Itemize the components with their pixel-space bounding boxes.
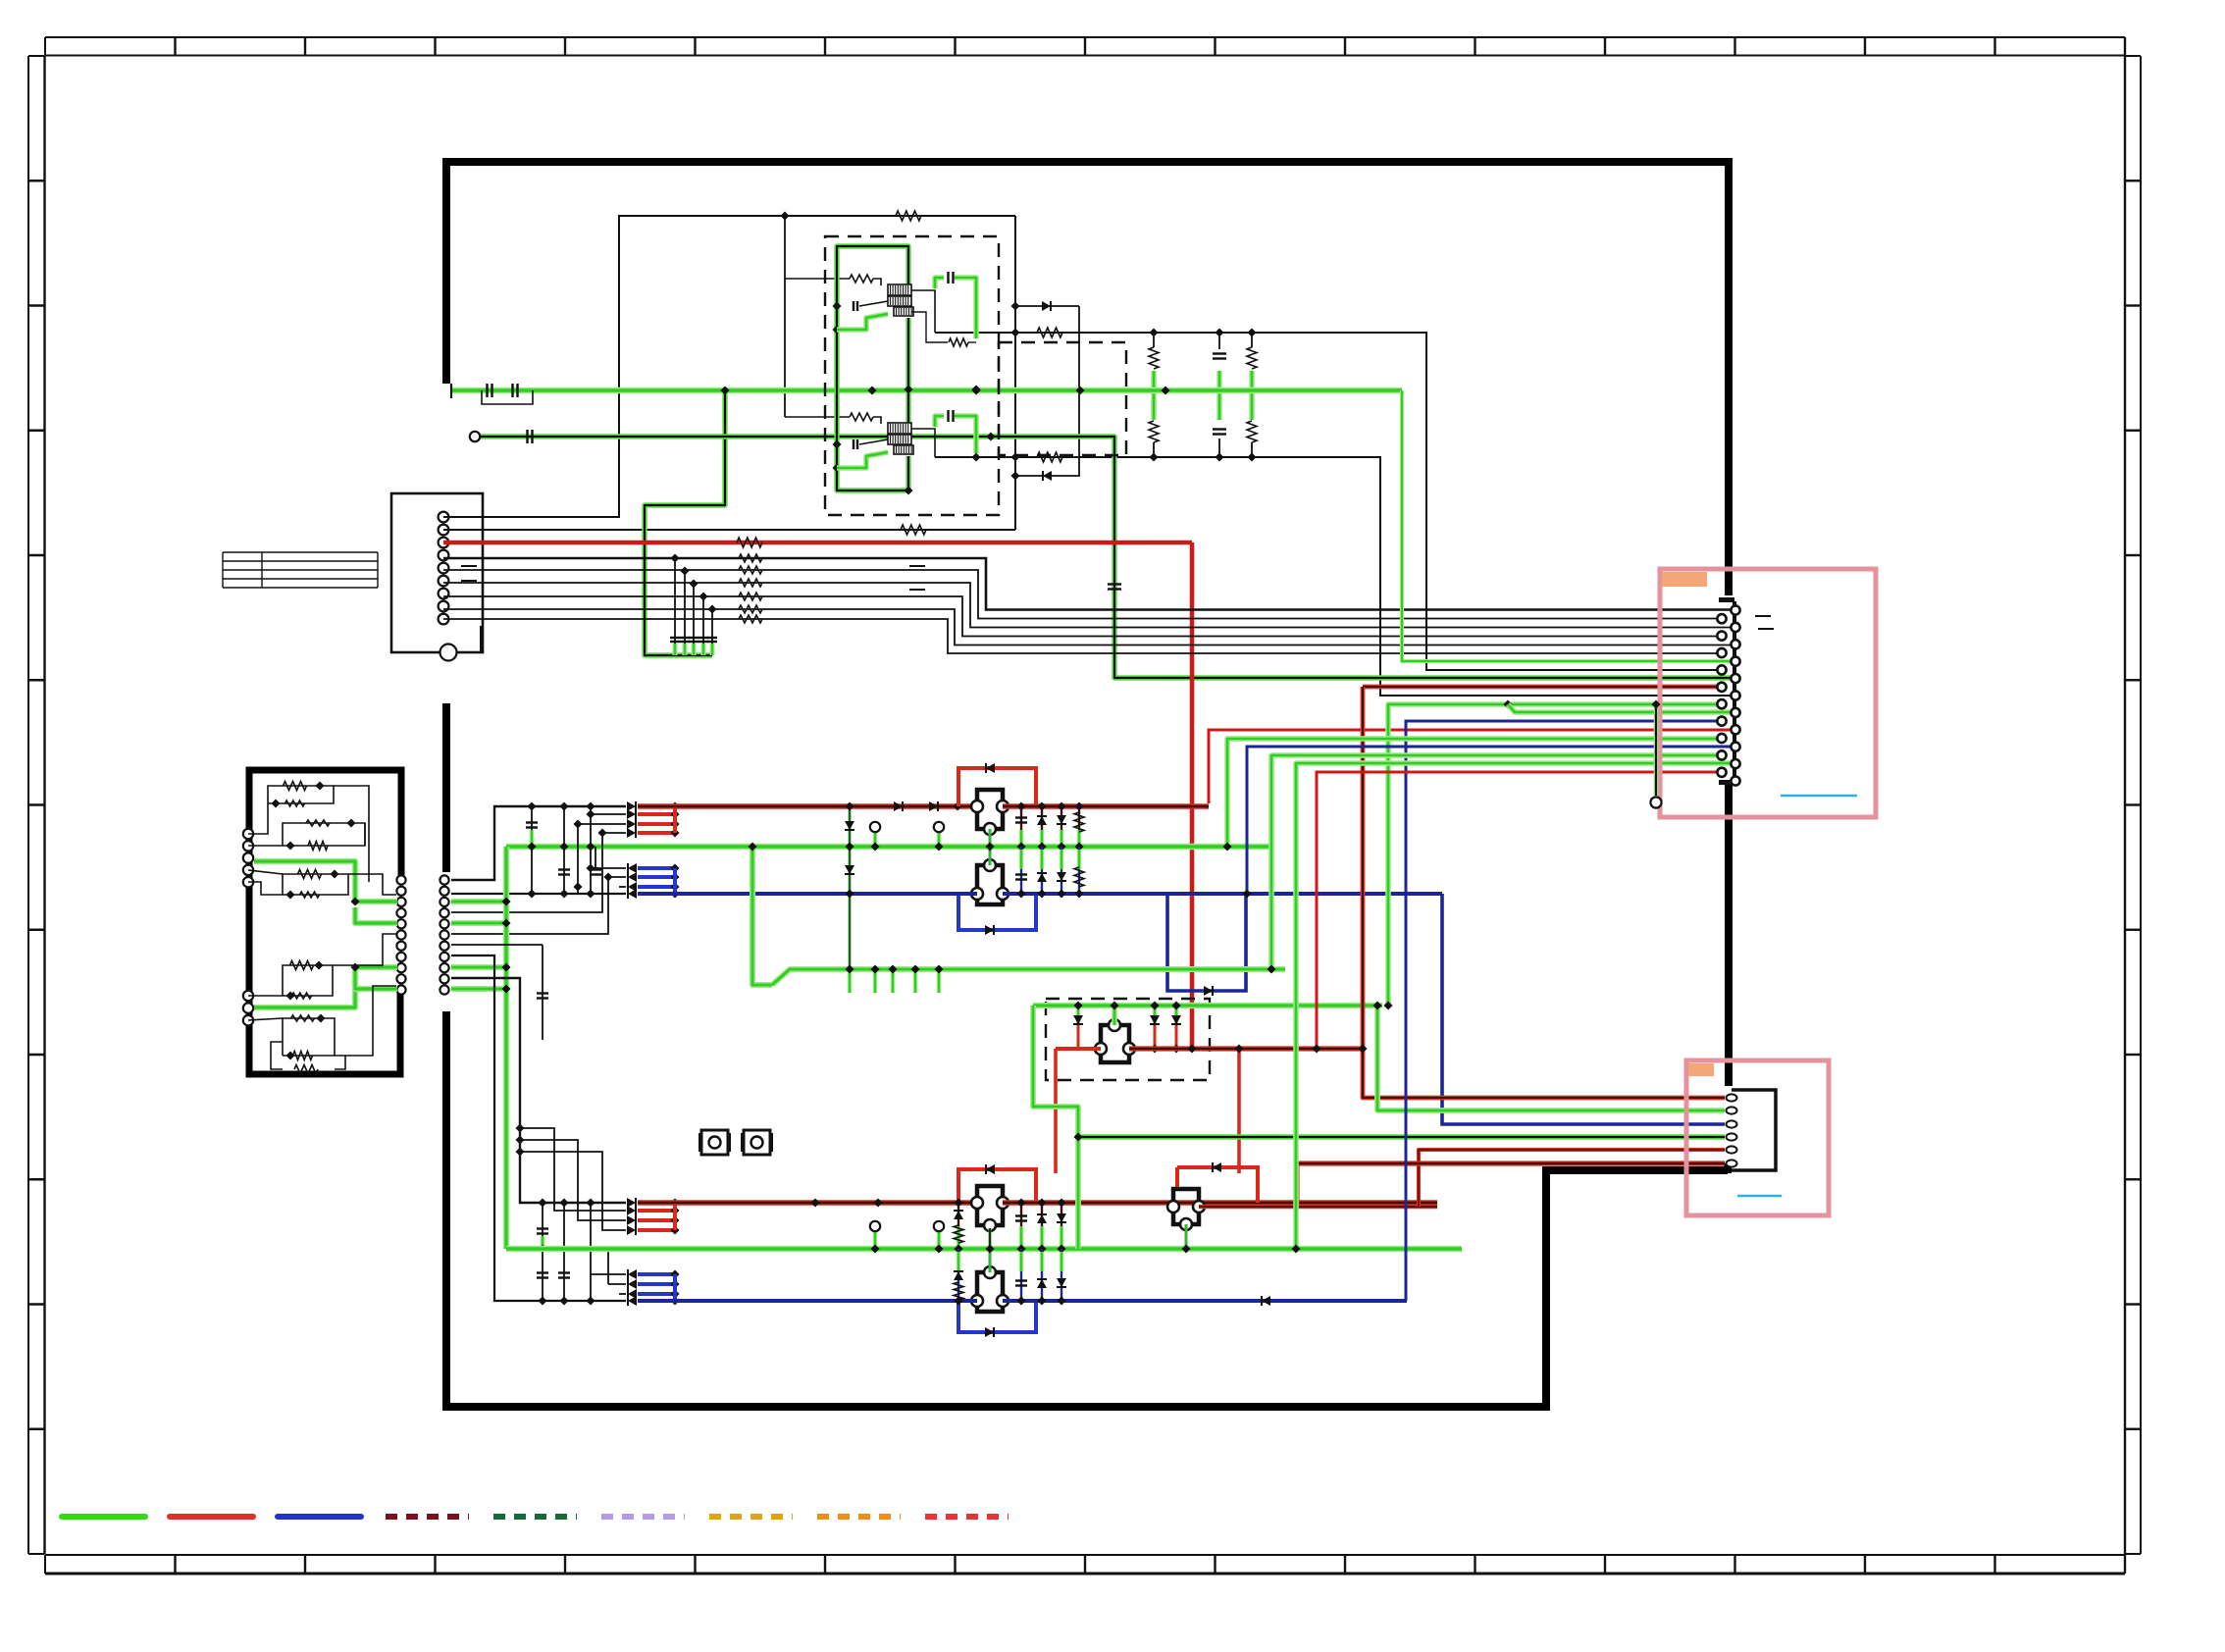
connector 2 bracket (1732, 1090, 1776, 1170)
red vertical (1190, 542, 1195, 1049)
bus1 feed wires (451, 806, 626, 880)
RC B (850, 413, 873, 421)
green riser row778 (1296, 763, 1731, 1249)
terminal circles bus2 (873, 1232, 878, 1247)
red wire to pin5 (1419, 1150, 1725, 1207)
dgreen riser row674 (1402, 390, 1731, 661)
cap bank to green bus (674, 558, 676, 649)
dark red bus 1b (1003, 803, 1209, 809)
blue rows 2 (628, 1269, 637, 1279)
dashed module box 3 (1046, 999, 1210, 1080)
black signal bundle (443, 558, 1731, 610)
resistor feed vertical (784, 216, 786, 417)
red riser row744 (1209, 730, 1731, 803)
dashed module box 1 (825, 236, 999, 515)
green bus 2 (506, 1246, 1462, 1253)
cyan label 2 (1737, 1195, 1782, 1198)
green bus 1 (506, 844, 1269, 851)
green jog row726 (1508, 704, 1731, 712)
wire Y466 (935, 457, 1731, 696)
green trunk (503, 847, 509, 1249)
dark red bus 2b (1003, 1200, 1437, 1206)
orange tab 2 (1688, 1063, 1714, 1076)
blue drop to pin3 (1442, 894, 1725, 1124)
relay T3 (958, 1169, 1036, 1203)
blue riser row735 (1406, 721, 1717, 1301)
diode pack red 2 (627, 1198, 636, 1208)
blue riser row761 (1247, 747, 1731, 894)
R/C dividers (1151, 371, 1157, 420)
red supply wire (443, 541, 1192, 545)
blue bus 2 (638, 1299, 977, 1303)
diode pack red 1 (627, 801, 636, 811)
coils B (888, 423, 911, 434)
green branch to cap bank (645, 390, 725, 655)
dkgreen wire to pin4 (1078, 1134, 1725, 1139)
top loop wire (443, 216, 1015, 517)
darkred wire to pin6 (1297, 1163, 1725, 1207)
red line through T6 (1056, 1047, 1101, 1051)
relay T1 (958, 768, 1036, 806)
signal table (223, 551, 378, 553)
connector 1 pins (1731, 605, 1739, 614)
RC A (850, 275, 873, 283)
green riser row770 (1271, 755, 1717, 969)
black trunk wires (451, 955, 626, 1301)
component stubs after T1 (1020, 806, 1022, 847)
legend (62, 1514, 145, 1520)
ECU pink box 2 (1686, 1060, 1829, 1215)
dark green return wire (470, 432, 480, 441)
coils A (888, 284, 911, 295)
main unit thick outline (446, 162, 1729, 595)
green loop A+B (837, 246, 908, 490)
mount pads (701, 1130, 728, 1155)
green link down (1033, 1006, 1078, 1249)
green sub bus (752, 847, 772, 985)
left sensor box (249, 770, 401, 1074)
green wire to pin2 (1377, 1006, 1725, 1110)
coil B right side (911, 429, 935, 457)
cyan label 1 (1781, 795, 1857, 798)
wire Y339 (935, 333, 1717, 670)
relay T6 (1101, 1025, 1129, 1062)
bus tie with diodes (849, 806, 852, 969)
bus2 feed wires (520, 1128, 626, 1211)
dashed module box 2 (999, 342, 1126, 455)
coil A right side (911, 290, 935, 333)
harness connector pair (440, 875, 448, 884)
red drop from T6 (1054, 1049, 1058, 1173)
red riser row787 (1317, 772, 1717, 1049)
dark red bus 2 (638, 1200, 977, 1206)
blue bus 1 (451, 893, 977, 895)
green riser row753 (1227, 739, 1717, 847)
upper connector block (391, 493, 483, 652)
relay T4 (958, 1301, 1036, 1332)
relay T5 (1177, 1167, 1258, 1203)
probe lead (1654, 704, 1659, 796)
relay T2 (958, 894, 1036, 930)
stubs after T3 (957, 1222, 959, 1249)
ECU pink box 1 (1660, 569, 1876, 817)
green feed into box (1033, 1003, 1382, 1008)
blue U loop (1167, 894, 1246, 991)
orange tab 1 (1662, 572, 1707, 587)
dark red bus 1 (638, 803, 977, 809)
green supply wire (451, 387, 1402, 393)
connector 2 pins (1727, 1094, 1737, 1101)
connector 1 bracket (1733, 601, 1736, 781)
green riser row718 (1388, 704, 1503, 1006)
terminal circles bus1 (873, 833, 878, 845)
darkred riser row700 + pin1 (1363, 685, 1717, 690)
blue rows 1 (628, 863, 637, 873)
